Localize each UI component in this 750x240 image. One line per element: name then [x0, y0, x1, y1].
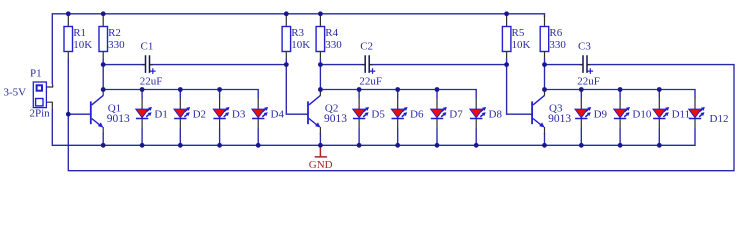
svg-text:10K: 10K — [512, 39, 531, 51]
svg-text:22uF: 22uF — [577, 76, 600, 88]
svg-text:R5: R5 — [512, 27, 525, 39]
svg-text:C1: C1 — [141, 41, 154, 53]
svg-text:D5: D5 — [371, 108, 385, 120]
svg-text:22uF: 22uF — [359, 76, 382, 88]
svg-text:9013: 9013 — [324, 113, 347, 125]
svg-text:D3: D3 — [232, 108, 246, 120]
svg-text:R2: R2 — [108, 27, 121, 39]
svg-text:D10: D10 — [632, 108, 651, 120]
svg-text:D9: D9 — [594, 108, 608, 120]
svg-text:10K: 10K — [291, 39, 310, 51]
svg-text:3-5V: 3-5V — [4, 87, 27, 99]
svg-text:D4: D4 — [271, 108, 285, 120]
svg-text:D8: D8 — [489, 108, 503, 120]
svg-text:10K: 10K — [73, 39, 92, 51]
svg-text:330: 330 — [325, 39, 342, 51]
svg-text:22uF: 22uF — [140, 76, 163, 88]
svg-text:330: 330 — [108, 39, 125, 51]
svg-text:R4: R4 — [325, 27, 338, 39]
svg-text:P1: P1 — [30, 67, 42, 79]
svg-text:R6: R6 — [549, 27, 562, 39]
svg-text:2Pin: 2Pin — [30, 108, 51, 120]
svg-text:R1: R1 — [73, 27, 86, 39]
svg-text:330: 330 — [549, 39, 566, 51]
svg-text:D1: D1 — [154, 108, 167, 120]
svg-text:C3: C3 — [578, 41, 591, 53]
svg-text:9013: 9013 — [548, 113, 571, 125]
svg-text:D7: D7 — [449, 108, 463, 120]
svg-text:9013: 9013 — [107, 113, 130, 125]
svg-text:D12: D12 — [710, 113, 729, 125]
svg-text:D2: D2 — [193, 108, 206, 120]
svg-text:D11: D11 — [672, 108, 691, 120]
svg-text:GND: GND — [309, 159, 333, 171]
svg-text:C2: C2 — [360, 41, 373, 53]
svg-text:D6: D6 — [410, 108, 424, 120]
svg-text:R3: R3 — [291, 27, 304, 39]
